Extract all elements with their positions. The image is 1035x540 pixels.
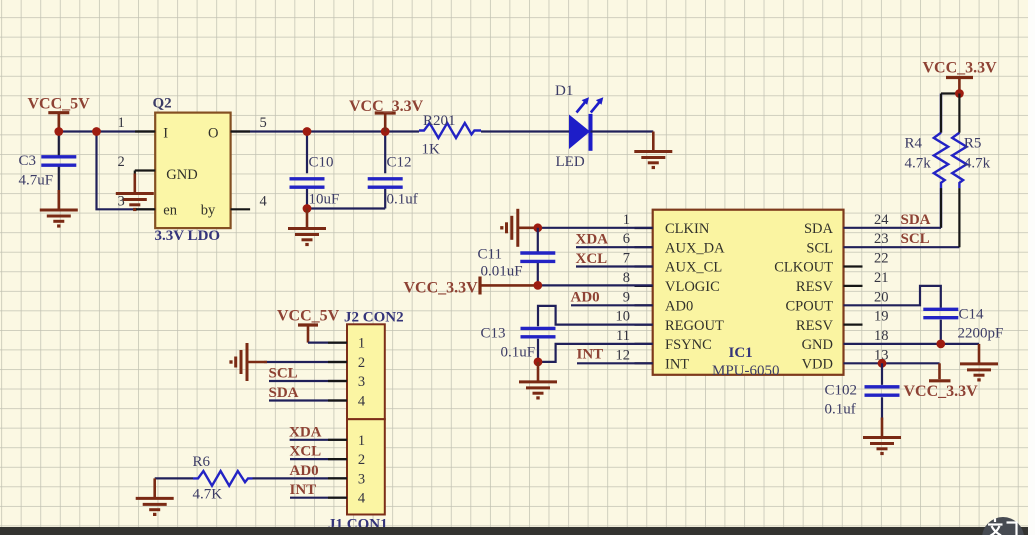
svg-text:20: 20 — [874, 289, 889, 305]
net label SDA with wire at J2 pin4 — [269, 385, 348, 401]
svg-text:8: 8 — [623, 270, 630, 286]
wire C10-C12 bottoms — [307, 207, 385, 209]
power port VCC_3.3V top right — [923, 60, 998, 94]
translate icon — [982, 517, 1024, 540]
svg-text:2: 2 — [358, 355, 365, 371]
pin stubs IC1 left — [635, 228, 653, 363]
svg-text:VCC_3.3V: VCC_3.3V — [923, 60, 998, 77]
svg-text:24: 24 — [874, 212, 889, 228]
svg-text:0.1uF: 0.1uF — [501, 344, 536, 360]
svg-text:4.7k: 4.7k — [905, 155, 932, 171]
svg-text:VCC_3.3V: VCC_3.3V — [904, 383, 979, 400]
svg-text:21: 21 — [874, 270, 889, 286]
svg-text:4.7uF: 4.7uF — [19, 173, 54, 189]
svg-text:INT: INT — [577, 347, 604, 363]
svg-text:AD0: AD0 — [290, 463, 319, 479]
capacitor C12 — [368, 132, 418, 209]
svg-text:AUX_DA: AUX_DA — [665, 240, 725, 256]
svg-text:VCC_5V: VCC_5V — [277, 307, 340, 324]
svg-text:22: 22 — [874, 251, 889, 267]
svg-text:3: 3 — [358, 471, 365, 487]
wire R201 to LED — [481, 130, 569, 132]
connector J2 CON2 — [344, 310, 404, 420]
resistor R201 — [419, 113, 481, 158]
svg-text:C13: C13 — [481, 326, 506, 342]
svg-text:3: 3 — [118, 194, 125, 210]
capacitor C11 — [478, 228, 556, 286]
svg-text:SCL: SCL — [901, 231, 930, 247]
power port VCC_3.3V at VDD (down) — [904, 363, 979, 400]
wire REGOUT to C13 jog — [538, 306, 653, 326]
wire CPOUT to C14 jog — [844, 286, 941, 308]
junction node C102 top — [878, 359, 887, 368]
capacitor C14 — [923, 306, 1003, 344]
svg-text:C10: C10 — [309, 155, 334, 171]
junction node C10 top — [303, 127, 312, 136]
svg-text:C14: C14 — [959, 306, 985, 322]
junction node C14 bottom — [936, 340, 945, 349]
junction node C13 bottom — [534, 358, 543, 367]
svg-text:IC1: IC1 — [729, 345, 753, 361]
svg-text:5: 5 — [260, 115, 267, 131]
ground sideways at CLKIN — [502, 209, 538, 247]
svg-text:by: by — [201, 203, 216, 219]
pin 1 of Q2 — [118, 115, 156, 132]
svg-text:XCL: XCL — [290, 444, 322, 460]
svg-text:VCC_3.3V: VCC_3.3V — [349, 98, 424, 115]
power port VCC_3.3V at regulator output — [349, 98, 424, 132]
svg-text:SDA: SDA — [804, 221, 834, 237]
svg-text:1: 1 — [623, 212, 630, 228]
net label XCL with wire at J1 pin2 — [290, 444, 348, 460]
svg-text:XCL: XCL — [576, 251, 608, 267]
svg-text:en: en — [163, 203, 177, 219]
svg-text:REGOUT: REGOUT — [665, 318, 724, 334]
svg-text:0.01uF: 0.01uF — [481, 264, 523, 280]
svg-text:AD0: AD0 — [665, 299, 693, 315]
svg-text:2200pF: 2200pF — [958, 325, 1004, 341]
svg-text:O: O — [208, 126, 218, 142]
svg-text:R5: R5 — [964, 136, 982, 152]
svg-text:SCL: SCL — [806, 240, 833, 256]
svg-text:RESV: RESV — [796, 318, 834, 334]
svg-text:4.7k: 4.7k — [964, 155, 991, 171]
scrollbar right — [1028, 0, 1035, 535]
svg-text:C11: C11 — [478, 247, 502, 263]
junction node C11 bottom — [533, 281, 542, 290]
wire R6 to ground — [155, 477, 193, 479]
pin 5 of Q2 — [231, 115, 267, 132]
svg-text:GND: GND — [802, 337, 833, 353]
svg-text:0.1uf: 0.1uf — [825, 402, 856, 418]
wire 3.3V rail from Q2 output to R201 — [231, 130, 419, 132]
resistor R4 — [905, 94, 949, 228]
svg-text:11: 11 — [616, 328, 630, 344]
svg-text:VCC_5V: VCC_5V — [28, 95, 91, 112]
pin stubs J2 J1 — [328, 343, 347, 498]
svg-text:RESV: RESV — [796, 279, 834, 295]
svg-text:VLOGIC: VLOGIC — [665, 279, 720, 295]
svg-text:2: 2 — [358, 452, 365, 468]
wire FSYNC to C13 bottom jog — [538, 344, 653, 362]
wire J2 pin1 — [308, 342, 347, 344]
net label XCL with wire — [576, 251, 653, 267]
svg-text:7: 7 — [623, 251, 630, 267]
capacitor C13 — [481, 326, 556, 362]
svg-text:INT: INT — [290, 482, 317, 498]
svg-text:4: 4 — [358, 394, 366, 410]
ground at pin 18 — [960, 344, 998, 380]
svg-text:0.1uf: 0.1uf — [387, 192, 418, 208]
svg-text:I: I — [163, 126, 168, 142]
svg-text:CLKOUT: CLKOUT — [774, 260, 833, 276]
svg-text:C102: C102 — [825, 383, 858, 399]
svg-text:18: 18 — [874, 328, 889, 344]
capacitor C102 — [825, 363, 900, 420]
ground below C102 — [863, 418, 901, 454]
net label AD0 on R6 wire at J1 pin3 — [253, 463, 348, 479]
svg-text:1: 1 — [358, 433, 365, 449]
wire SCL net — [844, 246, 960, 248]
svg-text:2: 2 — [118, 154, 125, 170]
svg-text:10uF: 10uF — [309, 192, 340, 208]
net label INT with wire at J1 pin4 — [290, 482, 348, 498]
capacitor C3 — [19, 132, 77, 191]
wire GND net pin 18 — [844, 343, 980, 345]
junction node en branch — [92, 127, 101, 136]
svg-text:4: 4 — [358, 491, 366, 507]
resistor R5 — [952, 94, 990, 248]
svg-text:J2 CON2: J2 CON2 — [344, 310, 404, 326]
svg-text:GND: GND — [166, 167, 197, 183]
svg-text:VCC_3.3V: VCC_3.3V — [404, 279, 479, 296]
svg-text:XDA: XDA — [289, 424, 322, 440]
net label XDA with wire — [576, 232, 653, 248]
svg-text:LED: LED — [556, 154, 585, 170]
svg-text:XDA: XDA — [576, 232, 609, 248]
wire main 5V rail — [59, 130, 155, 132]
wire VLOGIC net — [538, 284, 653, 286]
wire LED cathode to ground — [591, 130, 654, 132]
svg-text:1: 1 — [358, 336, 365, 352]
svg-text:MPU-6050: MPU-6050 — [712, 363, 780, 379]
svg-text:R4: R4 — [905, 136, 923, 152]
junction node pullups — [955, 89, 964, 98]
svg-text:SDA: SDA — [901, 212, 931, 228]
ground at Q2 pin 2 — [116, 174, 154, 210]
capacitor C10 — [290, 132, 340, 209]
LED D1 — [555, 83, 603, 170]
wire en branch — [97, 132, 156, 210]
junction node VCC_5V/C3 — [54, 127, 63, 136]
svg-text:C12: C12 — [387, 155, 412, 171]
svg-text:R201: R201 — [423, 113, 456, 129]
svg-text:Q2: Q2 — [153, 96, 172, 112]
svg-text:1: 1 — [118, 115, 125, 131]
power port VCC_5V — [28, 95, 91, 131]
ground sideways at J2 pin2 — [231, 343, 267, 381]
svg-text:9: 9 — [623, 289, 630, 305]
wire VDD net pin 13 — [844, 362, 940, 364]
wire CLKIN net — [538, 227, 653, 229]
svg-text:4.7K: 4.7K — [193, 487, 223, 503]
wire SDA net — [844, 227, 942, 229]
svg-text:10: 10 — [616, 309, 631, 325]
net label XDA with wire at J1 pin1 — [289, 424, 347, 440]
net label INT with wire — [577, 347, 653, 364]
ground below C10 — [288, 209, 326, 245]
svg-text:C3: C3 — [19, 153, 37, 169]
svg-text:SDA: SDA — [269, 385, 299, 401]
svg-text:FSYNC: FSYNC — [665, 337, 712, 353]
svg-text:VDD: VDD — [802, 357, 833, 373]
pin stubs IC1 right — [844, 267, 863, 325]
svg-text:CPOUT: CPOUT — [785, 299, 833, 315]
ground below C13 — [519, 362, 557, 398]
svg-text:4: 4 — [260, 194, 268, 210]
svg-text:AUX_CL: AUX_CL — [665, 260, 722, 276]
svg-text:19: 19 — [874, 309, 889, 325]
svg-text:3: 3 — [358, 374, 365, 390]
svg-text:INT: INT — [665, 357, 689, 373]
resistor R6 — [193, 454, 253, 502]
power port VCC_5V at J2 pin 1 — [277, 307, 340, 342]
svg-text:AD0: AD0 — [571, 290, 600, 306]
svg-text:3.3V LDO: 3.3V LDO — [155, 228, 221, 244]
pin 3 of Q2 — [118, 194, 156, 210]
svg-text:1K: 1K — [422, 142, 441, 158]
net label SCL with wire at J2 pin3 — [269, 366, 348, 382]
svg-text:CLKIN: CLKIN — [665, 221, 710, 237]
wire pullup top — [941, 92, 959, 94]
ground at R6 — [136, 478, 174, 514]
svg-text:SCL: SCL — [269, 366, 298, 382]
wire J2 pin2 ground net — [264, 361, 347, 363]
ground at LED — [634, 132, 672, 168]
op IC1 MPU-6050 body — [653, 210, 844, 379]
connector J1 CON1 — [328, 419, 388, 532]
ground below C3 — [40, 190, 78, 226]
svg-text:D1: D1 — [555, 83, 573, 99]
regulator Q2 — [153, 96, 231, 244]
svg-text:6: 6 — [623, 231, 630, 247]
junction node C11 top — [533, 223, 542, 232]
junction node C10 bottom — [303, 204, 312, 213]
svg-text:R6: R6 — [193, 454, 211, 470]
net label AD0 with wire — [571, 290, 653, 306]
pin 2 of Q2 — [118, 154, 156, 175]
svg-text:23: 23 — [874, 231, 889, 247]
taskbar bottom — [0, 527, 1035, 535]
power port VCC_3.3V at VLOGIC (horizontal) — [404, 277, 538, 297]
svg-text:12: 12 — [616, 347, 631, 363]
pin 4 of Q2 — [231, 194, 268, 210]
junction node C12 top — [381, 127, 390, 136]
